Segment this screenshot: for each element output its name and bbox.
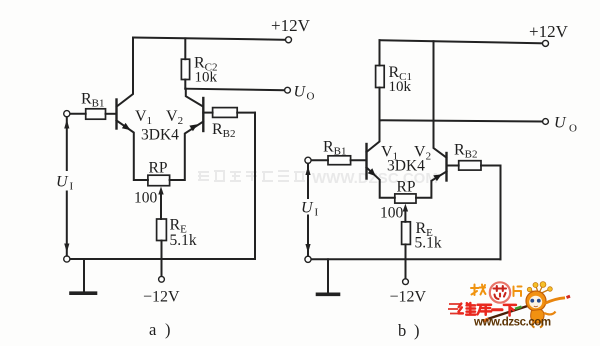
维: [459, 304, 463, 314]
faint background watermark band: [198, 170, 438, 187]
svg-text:RB1: RB1: [81, 91, 105, 110]
wire: RB1 to V1b base: [351, 159, 366, 161]
mascot crown stalks: [531, 286, 550, 294]
wire: V2b collector vertical: [434, 41, 447, 157]
svg-text:−12V: −12V: [143, 289, 180, 306]
arrow: RP a wiper: [160, 191, 162, 219]
arrow: UI up arrow a: [64, 120, 69, 129]
svg-text:+12V: +12V: [529, 22, 569, 41]
wire: V2a base to RB2: [203, 112, 212, 114]
wire: Uo line a: [185, 89, 284, 91]
svg-text:): ): [414, 321, 420, 340]
arrow: V2a emitter arrow: [189, 124, 197, 131]
mascot head ring: [526, 291, 546, 311]
wire: RC1 top: [379, 40, 381, 65]
watermark logo group: [448, 282, 570, 329]
wire: top rail a: [133, 38, 288, 40]
svg-text:RB1: RB1: [323, 139, 347, 158]
wire: input line b upper: [307, 164, 309, 199]
resistor RB2 a: [213, 108, 238, 118]
resistor RB2 b: [459, 161, 481, 170]
node: -12V terminal a: [159, 276, 165, 282]
svg-text:www.dzsc.com: www.dzsc.com: [473, 317, 551, 329]
arrow: V1a emitter NPN arrow: [122, 123, 131, 130]
wire: V2b emitter: [416, 172, 447, 198]
node: +12V terminal b: [543, 40, 549, 46]
svg-text:I: I: [315, 207, 319, 219]
svg-text:−12V: −12V: [390, 289, 427, 306]
wire: RB2 to right vertical a: [237, 112, 255, 114]
wire: V2b base to RB2: [447, 165, 459, 167]
svg-text:a: a: [149, 320, 157, 339]
wire: right vertical b: [500, 166, 502, 260]
resistor RB1 a: [86, 109, 106, 119]
mascot mouth: [534, 305, 538, 308]
node: Uo terminal b: [543, 119, 549, 125]
magnifier handle / pointer stick: [486, 306, 529, 320]
svg-text:U: U: [301, 200, 314, 217]
wire: V1b emitter: [367, 168, 395, 198]
下: [504, 305, 516, 316]
mascot face: [529, 296, 542, 308]
wire: bottom rail b: [308, 258, 501, 260]
svg-text:V2: V2: [166, 108, 183, 127]
wire: RB2 to right vertical b: [481, 165, 501, 167]
svg-text:U: U: [554, 115, 567, 132]
node: input top terminal a: [64, 111, 70, 117]
arrow: UI down arrow b: [305, 244, 310, 253]
node: input bottom terminal b: [305, 256, 311, 262]
svg-text:): ): [165, 320, 171, 339]
node: +12V terminal a: [286, 37, 292, 43]
transistor Q V1a bar: [115, 100, 117, 129]
svg-text:+12V: +12V: [271, 16, 311, 35]
wire: V1a emitter diagonal: [117, 121, 148, 181]
potentiometer RP b box: [395, 194, 416, 203]
wire: RE b bottom to -12V: [405, 244, 407, 279]
arrow: UI up arrow b: [305, 166, 310, 175]
wire: input line a lower: [66, 192, 68, 256]
svg-text:3DK4: 3DK4: [141, 127, 179, 144]
mascot crown balls: [527, 287, 531, 291]
wire: RC2 bottom to Uo node: [184, 80, 186, 89]
potentiometer RP a box: [148, 175, 170, 186]
wire: V1b collector: [367, 120, 380, 152]
glyph 找 (orange): [471, 285, 486, 296]
speed lines: [448, 304, 461, 314]
wire: V1a collector vertical: [117, 38, 133, 107]
svg-text:RP: RP: [149, 160, 168, 177]
transistor Q V2b bar: [445, 153, 447, 181]
transistor Q V1b bar: [365, 144, 367, 179]
node: -12V terminal b: [403, 279, 409, 285]
wire: input to RB1 a: [70, 113, 86, 115]
node: Uo terminal a: [285, 87, 291, 93]
wire: RC1 bottom to Uo node b: [379, 88, 381, 121]
resistor RC2: [181, 59, 189, 79]
arrow: RP b wiper: [404, 208, 406, 222]
svg-text:RB2: RB2: [454, 142, 478, 161]
transistor Q V2a bar: [202, 98, 204, 131]
wire: input line a upper: [66, 117, 68, 170]
wire: V2a emitter diagonal: [170, 122, 204, 181]
svg-text:3DK4: 3DK4: [387, 158, 425, 175]
svg-text:10k: 10k: [195, 70, 218, 86]
magnifier circle: [490, 282, 510, 302]
svg-text:U: U: [294, 84, 307, 101]
wire: RE a bottom to -12V: [161, 241, 163, 277]
resistor RE b: [402, 222, 411, 245]
ground b: [327, 259, 329, 293]
wordmark 维库一下 (red): [459, 303, 516, 316]
svg-text:100: 100: [380, 205, 404, 222]
svg-text:I: I: [70, 181, 74, 193]
wire: input to RB1 b: [311, 159, 328, 161]
svg-text:b: b: [398, 321, 406, 340]
svg-text:O: O: [569, 123, 577, 135]
resistor RB1 b: [328, 156, 351, 165]
ground a: [83, 259, 85, 292]
wire: V2a collector: [186, 89, 203, 107]
mascot arm right: [545, 298, 566, 304]
arrow: UI down arrow a: [64, 244, 69, 253]
mascot eyes: [530, 299, 534, 303]
svg-text:U: U: [56, 174, 69, 191]
wire: RC2 top: [184, 38, 186, 59]
mascot legs: [532, 322, 542, 328]
一: [493, 308, 502, 311]
svg-text:5.1k: 5.1k: [415, 235, 442, 252]
node: input bottom terminal a: [64, 256, 70, 262]
svg-text:RP: RP: [397, 179, 416, 196]
node: input top terminal b: [305, 157, 311, 163]
mascot body: [531, 310, 544, 324]
wire: bottom rail a: [67, 258, 255, 260]
svg-text:V1: V1: [135, 108, 152, 127]
svg-text:10k: 10k: [389, 79, 412, 95]
chip glyph 芯 inside magnifier (red): [494, 286, 507, 299]
resistor RE a: [157, 219, 167, 241]
glyph 片 (orange): [514, 287, 522, 297]
wire: RB1 to V1a base: [106, 113, 116, 115]
svg-text:O: O: [307, 91, 315, 103]
resistor RC1: [376, 66, 385, 88]
arrow: V2b emitter arrow: [433, 174, 442, 181]
wire: top rail b: [380, 40, 546, 43]
wire: input line b lower: [307, 216, 309, 257]
wire: Uo line b: [380, 120, 543, 121]
库: [478, 305, 492, 315]
wire: right vertical a: [254, 113, 256, 259]
mascot tail curl: [544, 312, 556, 315]
arrow: V1b emitter arrow: [368, 168, 376, 176]
svg-text:100: 100: [134, 190, 158, 207]
svg-text:5.1k: 5.1k: [170, 232, 197, 249]
svg-text:RB2: RB2: [212, 121, 236, 140]
